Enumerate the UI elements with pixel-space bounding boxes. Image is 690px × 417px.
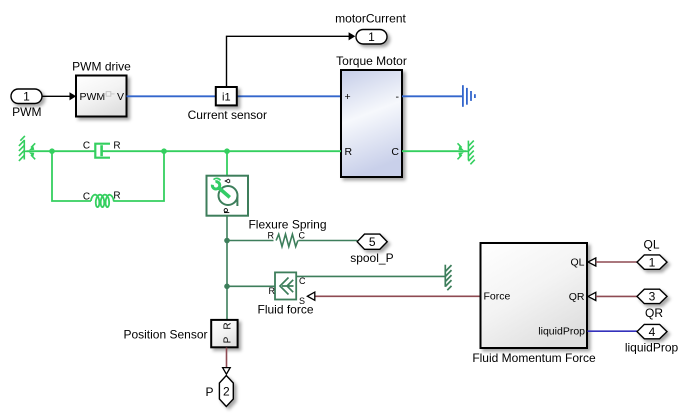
svg-text:C: C	[299, 230, 306, 240]
mechanical translational reference	[445, 265, 451, 291]
svg-text:Torque Motor: Torque Motor	[336, 54, 407, 68]
label PWM	[12, 105, 41, 119]
block Fluid Momentum Force	[481, 243, 588, 348]
label R flexure	[268, 230, 275, 240]
current sensor i1	[216, 87, 237, 105]
wire black i1 to motorCurrent	[227, 32, 356, 87]
converter block (rotational-translational)	[207, 176, 249, 216]
svg-text:P: P	[205, 385, 213, 399]
svg-text:QR: QR	[569, 291, 585, 303]
two-way wire liquidProp	[588, 330, 638, 332]
svg-text:P: P	[223, 336, 234, 343]
svg-text:R: R	[113, 191, 120, 202]
label Torque Motor	[336, 54, 407, 68]
svg-text:Fluid Momentum Force: Fluid Momentum Force	[472, 351, 596, 365]
svg-text:1: 1	[368, 30, 375, 44]
svg-text:i1: i1	[222, 91, 231, 103]
svg-text:QR: QR	[645, 306, 663, 320]
label QL	[643, 238, 659, 252]
svg-text:+: +	[345, 91, 351, 103]
label R damper	[113, 140, 120, 151]
svg-text:5: 5	[369, 235, 376, 249]
wire rotational to converter	[226, 151, 228, 176]
label R coil	[113, 191, 120, 202]
label C flexure	[299, 230, 306, 240]
svg-text:C: C	[83, 140, 90, 151]
flexure spring zigzag	[276, 234, 298, 246]
svg-text:C: C	[83, 191, 90, 202]
svg-text:QL: QL	[643, 238, 659, 252]
svg-text:R: R	[113, 140, 120, 151]
svg-text:Current sensor: Current sensor	[188, 108, 267, 122]
svg-text:R: R	[223, 322, 234, 329]
junction node converter top	[224, 148, 230, 154]
label Fluid Momentum Force	[472, 351, 596, 365]
svg-text:4: 4	[649, 325, 656, 339]
port 2 hexagon P (vertical)	[219, 376, 233, 407]
input triangle QL	[588, 258, 596, 266]
label Position Sensor	[123, 328, 207, 342]
block Position Sensor	[211, 320, 237, 347]
block Fluid force (force source)	[275, 272, 296, 299]
label S fluid force	[299, 296, 305, 306]
svg-text:Flexure Spring: Flexure Spring	[248, 217, 326, 231]
label PWM drive	[72, 60, 131, 74]
junction node left	[49, 148, 55, 154]
subsystem PWM drive	[76, 76, 127, 117]
svg-text:R: R	[268, 230, 275, 240]
wire electrical blue i1 to Torque Motor +	[237, 95, 341, 97]
wire electrical blue - to reference	[402, 95, 462, 97]
junction node mid	[161, 148, 167, 154]
block Torque Motor	[341, 70, 402, 177]
svg-text:V: V	[117, 91, 124, 103]
physical signal wire QR	[596, 295, 637, 297]
svg-text:motorCurrent: motorCurrent	[335, 12, 406, 26]
physical signal wire position sensor P down	[226, 348, 228, 368]
input triangle fluid force S	[307, 292, 314, 300]
physical signal wire Force to fluid force S	[315, 295, 481, 297]
port 5 hexagon spool_P	[357, 234, 387, 249]
outport motorCurrent (oval 1)	[356, 30, 387, 45]
label C fluid force	[299, 276, 306, 286]
svg-text:2: 2	[223, 384, 230, 398]
wire rotational lower branch	[52, 151, 164, 201]
wire translational to fluid force R	[227, 285, 275, 287]
svg-text:1: 1	[649, 255, 656, 269]
svg-text:1: 1	[23, 90, 30, 104]
physical signal wire QL	[596, 261, 637, 263]
mechanical rotational reference right	[458, 141, 475, 165]
wire black from PWM port to PWM drive	[42, 92, 76, 100]
label C coil	[83, 191, 90, 202]
label Fluid force	[257, 302, 313, 316]
svg-text:QL: QL	[570, 256, 584, 268]
wire translational converter to junction	[226, 216, 228, 241]
label Flexure Spring	[248, 217, 326, 231]
port 1 hexagon QL	[637, 255, 667, 270]
svg-text:-: -	[396, 91, 400, 103]
junction node fluid force	[224, 284, 230, 290]
svg-text:C: C	[299, 276, 306, 286]
port 4 hexagon liquidProp	[637, 324, 667, 339]
svg-text:Force: Force	[484, 291, 511, 303]
label motorCurrent	[335, 12, 406, 26]
input triangle port P	[223, 368, 231, 375]
label spool_P	[350, 251, 393, 265]
label R fluid force	[269, 286, 276, 296]
svg-text:PWM drive: PWM drive	[72, 60, 131, 74]
svg-text:Position Sensor: Position Sensor	[123, 328, 207, 342]
input triangle QR	[588, 292, 596, 300]
electrical reference ground	[463, 85, 475, 107]
label P	[205, 385, 213, 399]
svg-text:liquidProp: liquidProp	[538, 326, 585, 338]
svg-text:R: R	[269, 286, 276, 296]
wire translational flexure to port 5	[298, 240, 357, 242]
svg-text:R: R	[345, 146, 353, 158]
svg-text:PWM: PWM	[12, 105, 41, 119]
svg-text:Fluid force: Fluid force	[257, 302, 313, 316]
mechanical rotational reference left	[19, 136, 35, 161]
label QR	[645, 306, 663, 320]
spring coil C-R (rotational)	[91, 195, 114, 207]
wire electrical blue V to i1	[127, 95, 217, 97]
port 3 hexagon QR	[637, 289, 667, 304]
wire rotational green C to reference	[402, 150, 467, 152]
inport PWM (oval 1)	[11, 89, 42, 104]
svg-text:C: C	[391, 146, 399, 158]
svg-text:spool_P: spool_P	[350, 251, 393, 265]
svg-text:PWM: PWM	[80, 91, 106, 103]
label liquidProp	[625, 340, 679, 354]
svg-text:3: 3	[649, 290, 656, 304]
wire translational fluid force C to reference	[296, 275, 445, 277]
label C damper	[83, 140, 90, 151]
wire rotational green main line	[27, 150, 342, 152]
wire translational down to fluid force junction	[226, 241, 228, 287]
junction node flexure	[224, 238, 230, 244]
label Current sensor	[188, 108, 267, 122]
svg-text:liquidProp: liquidProp	[625, 340, 679, 354]
wire translational down to position sensor	[226, 286, 228, 320]
damper C-R (rotational)	[95, 144, 110, 158]
wire translational to flexure spring	[227, 240, 274, 242]
